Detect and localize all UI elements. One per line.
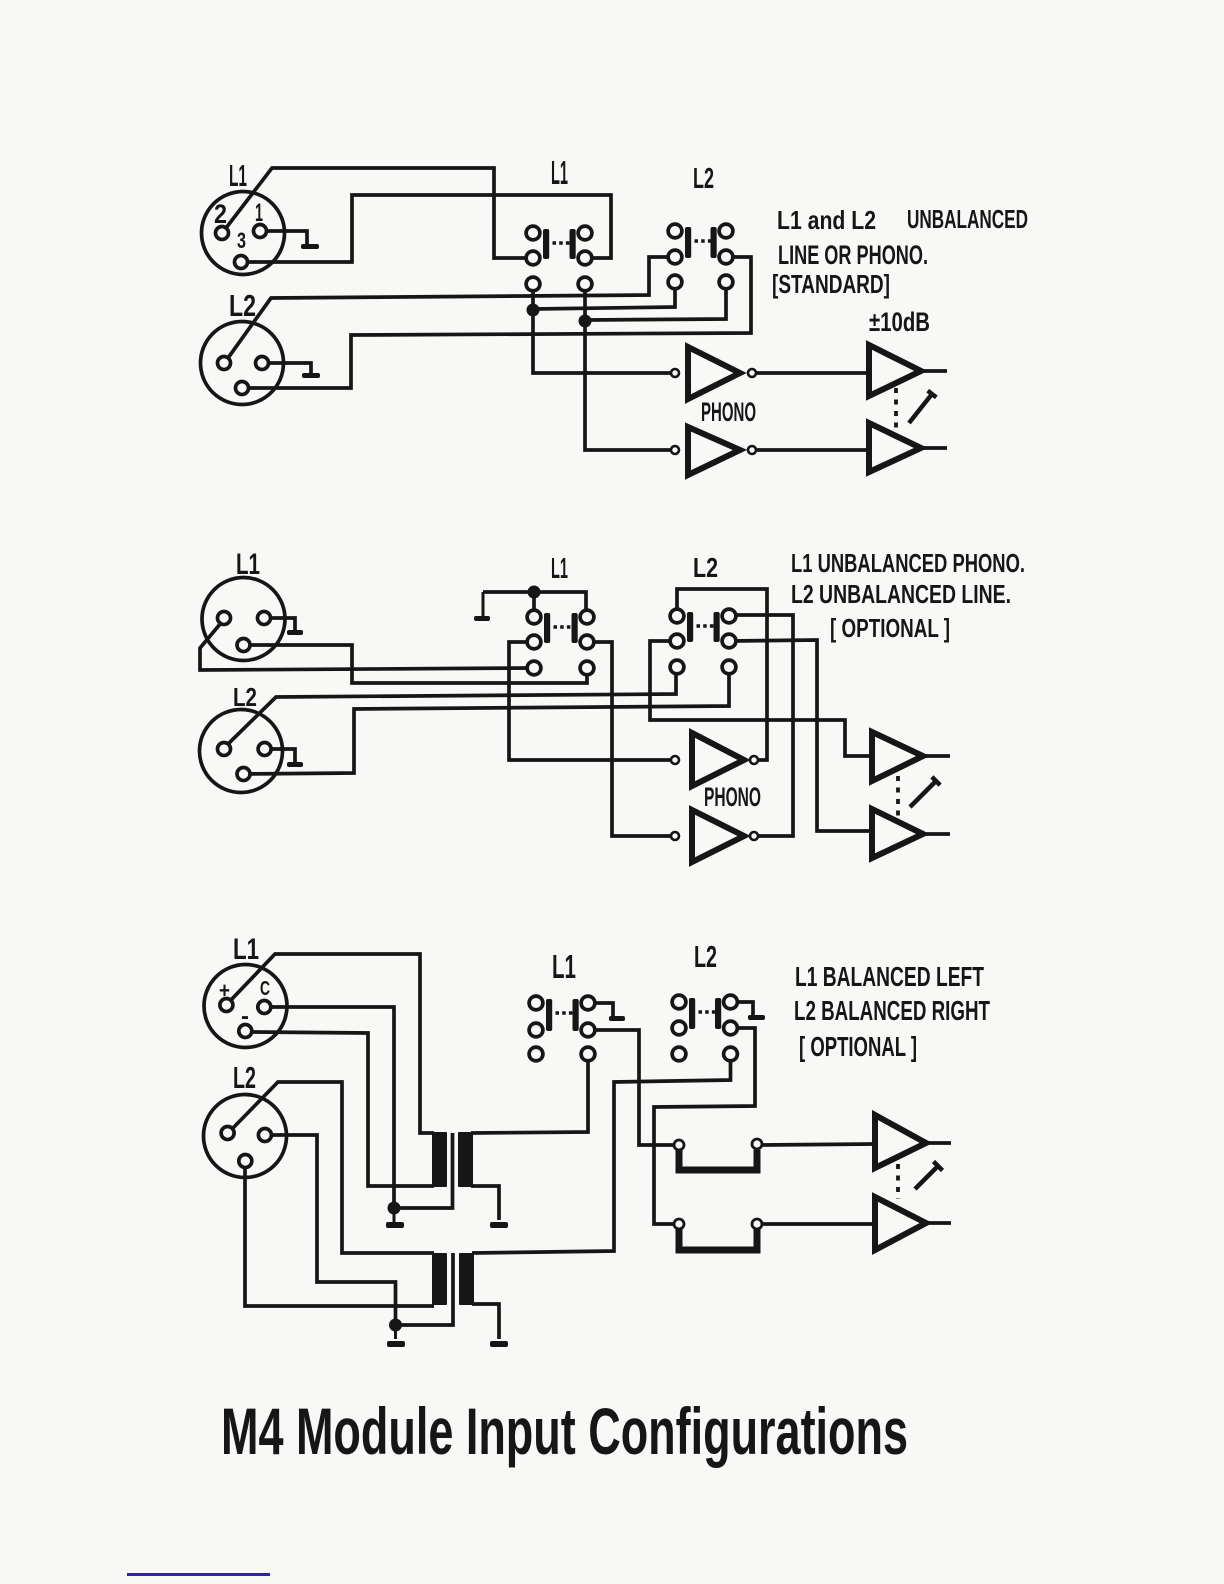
svg-text:L1 BALANCED LEFT: L1 BALANCED LEFT (795, 961, 984, 992)
op-amp U10 line amp L2 (section3) (875, 1197, 926, 1250)
wire line amp U9 output (926, 1141, 951, 1145)
op-amp U4 line amp L2 (±10dB) (869, 423, 921, 472)
transformer T2 secondary winding (459, 1253, 474, 1305)
dashed gang link U9-U10 (896, 1164, 900, 1199)
switch L1 (section1) contact bot-left (526, 277, 540, 291)
jumper link J1 (thick U) (679, 1150, 757, 1170)
XLR-L2m pin 1 (258, 743, 271, 756)
svg-text:2: 2 (214, 199, 227, 229)
wire XLR-L1m pin2 to switch-L1m bot-left (200, 623, 535, 670)
wire line amp U7 output (923, 754, 950, 758)
wire T1 secondary bottom to ground (471, 1186, 499, 1220)
input terminal U5 (671, 756, 679, 764)
switch L1b (section3) contact top-right (581, 996, 595, 1010)
wire node C stem to switch-L1m top-left (532, 592, 536, 617)
op-amp U7 line amp (section2) (872, 732, 923, 781)
svg-text:L2 BALANCED RIGHT: L2 BALANCED RIGHT (794, 995, 990, 1026)
switch L1m (section2) contact bot-right (580, 661, 594, 675)
wire phono U6 output up to switch-L2m top-right (729, 615, 793, 836)
wire node D to T1 shield (394, 1133, 453, 1208)
XLR-L2 pin 3 (236, 382, 249, 395)
wire phono U2 output to line amp U4 (756, 448, 869, 452)
switch L1 (section1) contact bar left (543, 229, 549, 259)
wire T2 secondary bottom to ground (472, 1304, 499, 1339)
transformer T2 primary winding (432, 1253, 447, 1305)
svg-text:L2: L2 (693, 552, 718, 583)
svg-text:[STANDARD]: [STANDARD] (772, 269, 890, 299)
wire switch-L1b top-right to ground (588, 1003, 613, 1016)
output terminal U1 (748, 369, 756, 377)
wire T2 secondary top to switch-L2b bot-right (472, 1054, 731, 1253)
ground symbol XLR-L2m pin1 (294, 749, 297, 762)
XLR connector L2b body (204, 1095, 287, 1178)
switch L1m (section2) contact mid-left (527, 635, 541, 649)
switch L2b (section3) contact top-left (672, 995, 686, 1009)
junction node E (389, 1319, 402, 1332)
switch L2 (section1) contact bar left (685, 227, 691, 258)
wire XLR-L2 pin3 to switch-L2 mid-right (242, 257, 751, 388)
XLR-L2 pin 2 (218, 357, 231, 370)
svg-text:3: 3 (237, 228, 246, 253)
ground symbol XLR-L2 pin1 (310, 363, 313, 373)
XLR-L1b pin - (3) (239, 1025, 252, 1038)
input terminal U6 (671, 832, 679, 840)
svg-text:L1 UNBALANCED PHONO.: L1 UNBALANCED PHONO. (791, 548, 1025, 578)
jumper J2 right terminal (752, 1219, 762, 1229)
dashed gang link U3-U4 (894, 388, 898, 433)
svg-text:1: 1 (255, 199, 263, 227)
switch L1b (section3) contact bot-left (529, 1047, 543, 1061)
XLR connector L1b body (204, 965, 287, 1048)
XLR-L1m pin 1 (258, 612, 271, 625)
svg-text:UNBALANCED: UNBALANCED (907, 204, 1028, 234)
wire line amp U10 output (926, 1221, 951, 1225)
svg-text:[ OPTIONAL ]: [ OPTIONAL ] (830, 613, 950, 643)
svg-text:PHONO: PHONO (701, 397, 756, 427)
ground symbol switch-L1m (482, 592, 485, 616)
op-amp U8 line amp (section2) (872, 809, 923, 858)
svg-text:+: + (219, 978, 230, 1003)
svg-text:L1 and L2: L1 and L2 (777, 205, 876, 235)
ground symbol T1 secondary (498, 1186, 501, 1220)
op-amp U5 phono L1 (section2) (692, 733, 744, 786)
wire jumper J2 to line amp U10 input (762, 1222, 875, 1226)
switch L2 (section1) contact bot-left (668, 275, 682, 289)
switch L2m (section2) contact bar left (687, 612, 693, 642)
ground symbol XLR-L1 pin1 (306, 231, 309, 244)
switch L2b (section3) contact mid-left (672, 1021, 686, 1035)
wire XLR-L2m pin3 to switch-L2m bot-right (243, 667, 729, 774)
wire XLR-L1 pin3 to switch-L1 mid-right (241, 195, 611, 262)
switch L2m (section2) contact top-right (722, 609, 736, 623)
wire XLR-L2 pin1 to chassis ground (262, 363, 311, 373)
switch L2b (section3) contact mid-right (724, 1021, 738, 1035)
wire switch-L2m mid-left to line amp U7 input (650, 641, 869, 756)
wire phono U5 output up to switch-L2m top-left (677, 589, 767, 760)
wire switch-L2b top-right to ground (731, 1002, 754, 1015)
switch L2 (section1) contact bot-right (719, 275, 733, 289)
XLR-L2b pin 1 (258, 1129, 271, 1142)
switch L1m (section2) contact top-right (580, 610, 594, 624)
switch L2m (section2) contact bar right (714, 612, 720, 642)
blue scan mark (127, 1573, 270, 1576)
switch L1b (section3) contact top-left (529, 996, 543, 1010)
XLR connector L1 body (202, 192, 285, 275)
wire XLR-L2m pin1 to chassis ground (264, 749, 295, 762)
switch L1m (section2) contact top-left (527, 610, 541, 624)
wire XLR-L1m pin1 to chassis ground (264, 618, 295, 630)
wire line amp U8 output (923, 832, 950, 836)
gain trim arrow U9/U10 (915, 1162, 943, 1190)
XLR-L1b pin + (2) (220, 999, 233, 1012)
XLR-L1 pin 2 (216, 227, 229, 240)
wire line amp U3 output (921, 369, 947, 373)
wire switch-L2b mid-right to jumper J2 (654, 1028, 755, 1224)
op-amp U3 line amp L1 (±10dB) (869, 345, 921, 396)
switch L2b (section3) contact bot-right (724, 1047, 738, 1061)
XLR-L1 pin 3 (235, 256, 248, 269)
wire node A to switch-L2 bot-left (533, 282, 675, 309)
wire switch-L1 bot-left stem to node A (531, 284, 535, 310)
wire XLR-L2b pin+ to transformer T2 primary top (232, 1082, 434, 1253)
gain trim arrow U3/U4 (909, 391, 936, 423)
svg-text:L1: L1 (551, 154, 568, 191)
junction node A (527, 304, 540, 317)
switch L2m (section2) contact top-left (670, 609, 684, 623)
wire node E to T2 shield (396, 1253, 454, 1325)
switch L2m (section2) contact bot-right (722, 660, 736, 674)
svg-text:L2: L2 (694, 939, 717, 974)
switch L2b (section3) contact bot-left (672, 1047, 686, 1061)
switch L1b (section3) contact mid-left (529, 1023, 543, 1037)
wire phono U1 output to line amp U3 (756, 371, 869, 375)
svg-text:L1: L1 (551, 553, 568, 585)
XLR connector L2m body (200, 710, 283, 793)
output terminal U6 (750, 832, 758, 840)
input terminal U2 (671, 446, 679, 454)
wire node B to phono amp U2 input (585, 321, 671, 450)
jumper link J2 (thick U) (679, 1229, 757, 1250)
switch L2m (section2) contact mid-right (722, 634, 736, 648)
wire T1 secondary top to switch-L1b bot-right (471, 1054, 588, 1133)
output terminal U2 (748, 446, 756, 454)
switch L1 (section1) contact top-right (578, 226, 592, 240)
switch L2m (section2) contact mid-left (670, 634, 684, 648)
XLR-L1b pin C (1) (258, 1001, 271, 1014)
svg-text:L1: L1 (552, 948, 576, 985)
XLR-L2b pin 3 (239, 1155, 252, 1168)
junction node B (579, 315, 592, 328)
junction node D (388, 1202, 401, 1215)
jumper J2 left terminal (674, 1219, 684, 1229)
XLR connector L2 body (201, 322, 284, 405)
ground symbol node D (393, 1208, 396, 1222)
switch L1m (section2) gang dashed link (554, 625, 575, 628)
XLR-L1m pin 3 (237, 639, 250, 652)
switch L2 (section1) contact top-left (668, 224, 682, 238)
XLR-L2m pin 2 (218, 743, 231, 756)
op-amp U9 line amp L1 (section3) (875, 1115, 926, 1168)
switch L2 (section1) gang dashed link (695, 239, 714, 242)
svg-text:±10dB: ±10dB (869, 307, 930, 337)
svg-text:L1: L1 (236, 548, 260, 581)
wire switch-L1 bot-right stem to node B (583, 284, 587, 321)
svg-text:L2 UNBALANCED LINE.: L2 UNBALANCED LINE. (791, 579, 1011, 609)
switch L2 (section1) contact top-right (719, 224, 733, 238)
input terminal U1 (671, 369, 679, 377)
switch L1b (section3) contact mid-right (581, 1023, 595, 1037)
switch L2b (section3) contact top-right (724, 995, 738, 1009)
wire XLR-L1b pin- to T1 primary bottom (250, 1032, 434, 1186)
wire XLR-L2m pin2 to switch-L2m bot-left (228, 667, 676, 744)
switch L1 (section1) contact mid-right (578, 251, 592, 265)
XLR-L1 pin 1 (254, 225, 267, 238)
XLR-L2m pin 3 (237, 768, 250, 781)
svg-text:C: C (260, 978, 270, 1000)
svg-text:M4 Module Input Configurations: M4 Module Input Configurations (221, 1394, 908, 1468)
svg-text:PHONO: PHONO (704, 782, 761, 812)
ground symbol switch-L1b (612, 1003, 615, 1016)
switch L1b (section3) contact bot-right (581, 1047, 595, 1061)
switch L1 (section1) gang dashed link (553, 241, 573, 244)
transformer T1 secondary winding (458, 1132, 473, 1187)
XLR-L2b pin 2 (221, 1127, 234, 1140)
wire node A to phono amp U1 input (533, 310, 671, 373)
wire grounded link over switch-L1m (483, 592, 586, 617)
junction node C (528, 586, 541, 599)
svg-text:-: - (241, 1003, 249, 1030)
switch L2b (section3) gang dashed link (699, 1010, 718, 1013)
wire XLR-L1 pin2 to switch-L1 mid-left (hot) (226, 168, 533, 258)
svg-text:L2: L2 (229, 288, 256, 323)
wire XLR-L1b pinC to shield/ground node D (264, 1007, 394, 1208)
XLR connector L1m body (202, 578, 285, 661)
wire XLR-L1m pin3 to switch-L1m bot-right (243, 645, 587, 683)
wire switch-L1m mid-right to phono U6 input (587, 642, 671, 836)
jumper J1 right terminal (752, 1139, 762, 1149)
wire XLR-L2b pin- to T2 primary bottom (245, 1161, 434, 1306)
switch L2 (section1) contact mid-left (668, 250, 682, 264)
op-amp U1 phono L1 (688, 347, 740, 399)
op-amp U2 phono L2 (688, 427, 740, 475)
switch L1m (section2) contact mid-right (580, 635, 594, 649)
wire XLR-L2b pinC to shield/ground node E (264, 1135, 396, 1325)
transformer T1 primary winding (432, 1132, 447, 1187)
svg-text:L1: L1 (229, 158, 247, 193)
svg-text:[ OPTIONAL ]: [ OPTIONAL ] (799, 1031, 917, 1062)
svg-text:L1: L1 (233, 933, 259, 966)
switch L2 (section1) contact bar right (711, 227, 717, 258)
switch L2b (section3) contact bar left (689, 998, 695, 1029)
wire switch-L1m mid-left to phono U5 input (509, 642, 671, 760)
switch L2m (section2) gang dashed link (697, 624, 717, 627)
ground symbol node E (394, 1325, 397, 1339)
wire switch-L1b mid-right to jumper J1 (588, 1030, 674, 1145)
svg-text:L2: L2 (233, 682, 257, 712)
wire jumper J1 to line amp U9 input (762, 1144, 875, 1145)
switch L1b (section3) gang dashed link (556, 1011, 576, 1014)
switch L2 (section1) contact mid-right (719, 250, 733, 264)
ground symbol XLR-L1m pin1 (294, 618, 297, 630)
svg-text:LINE OR PHONO.: LINE OR PHONO. (778, 240, 928, 270)
switch L1b (section3) contact bar right (573, 999, 579, 1031)
switch L1 (section1) contact top-left (526, 226, 540, 240)
wire XLR-L1 pin1 to chassis ground (260, 231, 307, 244)
switch L2m (section2) contact bot-left (670, 660, 684, 674)
gain trim arrow U7/U8 (910, 777, 940, 807)
svg-text:L2: L2 (693, 163, 714, 195)
switch L1m (section2) contact bar right (572, 613, 578, 643)
wire node B to switch-L2 bot-right (585, 282, 726, 320)
svg-text:L2: L2 (233, 1060, 256, 1095)
switch L1b (section3) contact bar left (546, 999, 552, 1031)
XLR-L2 pin 1 (256, 357, 269, 370)
switch L1m (section2) contact bot-left (527, 661, 541, 675)
switch L1 (section1) contact bar right (570, 229, 576, 259)
switch L1 (section1) contact bot-right (578, 277, 592, 291)
output terminal U5 (750, 756, 758, 764)
dashed gang link U7-U8 (896, 776, 900, 820)
switch L2b (section3) contact bar right (715, 998, 721, 1029)
ground symbol switch-L2b (752, 1002, 755, 1015)
jumper J1 left terminal (674, 1140, 684, 1150)
switch L1m (section2) contact bar left (544, 613, 550, 643)
op-amp U6 phono L2 (section2) (692, 810, 744, 862)
wire XLR-L2 pin2 to switch-L2 mid-left (228, 257, 675, 358)
switch L1 (section1) contact mid-left (526, 251, 540, 265)
XLR-L1m pin 2 (218, 612, 231, 625)
ground symbol T2 secondary (498, 1304, 501, 1339)
wire line amp U4 output (921, 446, 947, 450)
wire XLR-L1b pin+ to transformer T1 primary top (230, 954, 434, 1133)
wire switch-L2m mid-right to line amp U8 input (729, 640, 869, 831)
